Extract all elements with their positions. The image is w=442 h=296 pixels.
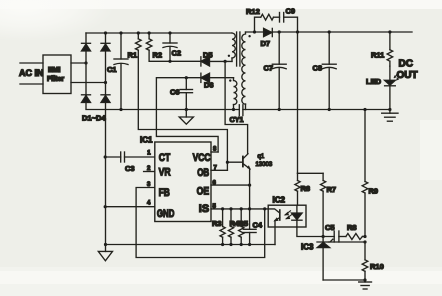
transistor Q1 13003 (243, 154, 273, 169)
node FB riser on IS rail (263, 207, 266, 210)
svg-text:D1~D4: D1~D4 (82, 114, 106, 123)
ground (primary main) (98, 251, 112, 260)
optocoupler IC2 box (268, 196, 306, 228)
wire AC input upper stub (20, 62, 43, 64)
optocoupler phototransistor (268, 209, 280, 221)
node ground column / sense rail (104, 243, 107, 246)
node bridge right column top (104, 31, 107, 34)
svg-text:CY1: CY1 (230, 115, 244, 124)
wire IC3 ref to divider (329, 241, 366, 243)
node GND on ground column (104, 205, 107, 208)
node EMI upper / bridge left (84, 61, 87, 64)
wire EMI output upper to left bridge column (71, 62, 86, 64)
ground (output earth) (382, 110, 398, 122)
transformer core (237, 32, 240, 66)
svg-text:AC IN: AC IN (19, 68, 44, 78)
svg-text:R10: R10 (370, 262, 384, 271)
node C2 top (168, 31, 171, 34)
ground (IC3 / divider earth) (359, 280, 372, 289)
capacitor C7 (264, 32, 287, 110)
wire C5 to R8 (339, 236, 346, 238)
capacitor C4 (243, 221, 263, 245)
svg-text:C6: C6 (170, 88, 180, 97)
node EMI lower / bridge right (104, 81, 107, 84)
node R3 bottom (221, 243, 224, 246)
wire R12 to C9 (274, 16, 280, 18)
wire top DC bus rail (86, 32, 232, 34)
svg-text:D6: D6 (204, 81, 214, 90)
svg-text:VCC: VCC (193, 152, 211, 164)
wire R12 riser (255, 17, 261, 32)
svg-text:C9: C9 (286, 7, 296, 16)
svg-text:GND: GND (157, 208, 175, 220)
svg-text:R8: R8 (347, 223, 357, 232)
wire opto emitter down to sense ground rail (274, 221, 276, 245)
node auxiliary phase dot (229, 79, 231, 81)
svg-text:IC1: IC1 (140, 136, 153, 145)
resistor R8 (346, 223, 363, 240)
capacitor C8 (313, 32, 337, 110)
node R5 top (240, 207, 243, 210)
wire IC3 anode to ground column (323, 279, 365, 281)
svg-text:CT: CT (159, 152, 171, 164)
node R4 bottom (229, 243, 232, 246)
svg-text:EMI: EMI (48, 67, 61, 74)
svg-text:D7: D7 (261, 39, 271, 48)
wire C9 to rail after D7 (284, 17, 298, 32)
node C6 tap (185, 76, 188, 79)
op-amp / controller IC1 box (140, 136, 211, 222)
svg-text:C8: C8 (313, 64, 323, 73)
svg-text:C5: C5 (325, 223, 335, 232)
capacitor C3 (105, 152, 134, 173)
svg-text:R6: R6 (301, 184, 311, 193)
node ref on divider (363, 240, 366, 243)
diode D4 (bridge lower-right) (101, 95, 110, 103)
svg-text:IC3: IC3 (301, 243, 314, 252)
node R4 top (229, 207, 232, 210)
svg-text:OE: OE (197, 185, 210, 197)
node R8 on divider (363, 235, 366, 238)
node base drive junction (226, 161, 229, 164)
capacitor C5 (325, 223, 339, 242)
node OE emitter junction (248, 184, 251, 187)
svg-text:OB: OB (197, 167, 209, 179)
node C7 top (278, 30, 281, 33)
resistor R10 (362, 242, 384, 280)
wire output bottom rail (243, 109, 390, 111)
wire pin5 IS rail to optocoupler (211, 208, 268, 210)
node C8 top (328, 30, 331, 33)
wire EMI output lower to right bridge column (71, 82, 106, 84)
resistor R11 (371, 32, 393, 66)
diode D6 (201, 73, 214, 89)
wire R8 to divider column (362, 236, 365, 238)
capacitor CY1 (230, 105, 244, 124)
svg-text:OUT: OUT (397, 70, 418, 81)
diode D3 (bridge lower-left) (82, 95, 91, 103)
diode D2 (bridge upper-right) (101, 43, 110, 51)
node auxiliary winding bottom (232, 108, 235, 111)
resistor R7 (321, 173, 337, 236)
wire Q1 emitter down through IS rail to C4 (249, 169, 251, 230)
node R3 top (221, 207, 224, 210)
node C6 bottom (185, 108, 188, 111)
node R9 top on rail (363, 108, 366, 111)
wire D5 anode to switch node (210, 60, 233, 62)
svg-text:LED: LED (366, 77, 382, 86)
wire pin2 VR stub (144, 171, 155, 173)
svg-text:C7: C7 (264, 64, 274, 73)
svg-text:DC: DC (399, 59, 413, 70)
node secondary phase dot (248, 35, 250, 37)
resistor R1 (128, 33, 142, 60)
node C2 bottom (168, 60, 171, 63)
transformer T1 auxiliary winding (234, 78, 237, 110)
svg-text:IC2: IC2 (273, 196, 286, 205)
wire sense top link R6 R7 (298, 172, 324, 174)
diode D7 (261, 28, 273, 48)
resistor R3 (212, 209, 225, 245)
node R12 riser on rail (253, 30, 256, 33)
node primary phase dot (228, 55, 230, 57)
diode D1 (bridge upper-left) (82, 43, 91, 51)
transformer T1 primary winding (232, 33, 235, 61)
svg-text:R5: R5 (239, 219, 249, 228)
capacitor C1 (107, 33, 128, 110)
capacitor C9 (280, 7, 296, 23)
svg-text:q1: q1 (258, 154, 265, 160)
wire primary-side bottom ground rail (86, 109, 239, 111)
capacitor C6 (170, 78, 193, 110)
svg-text:VR: VR (159, 167, 171, 179)
resistor R4 (228, 209, 240, 245)
wire sense ground rail (106, 244, 276, 246)
node R1 top (137, 31, 140, 34)
svg-text:Filter: Filter (47, 76, 64, 83)
node C3 left on ground column (104, 155, 107, 158)
wire pin3 FB lead down and right to opto (136, 188, 265, 258)
svg-text:R2: R2 (153, 51, 163, 60)
node R7 / IC3 cathode junction (322, 235, 325, 238)
svg-text:R12: R12 (246, 7, 260, 16)
node R10 bottom (363, 278, 366, 281)
wire primary ground column (105, 110, 107, 252)
svg-text:FB: FB (159, 187, 170, 199)
wire OB riser to base (227, 162, 242, 170)
wire R1 bottom to base node (138, 50, 227, 162)
capacitor C2 (163, 33, 181, 61)
wire pin1 CT lead (125, 156, 155, 158)
wire R2 bottom to D5 cathode (149, 50, 201, 61)
node snubber return on rail (296, 30, 299, 33)
transformer T1 secondary winding (242, 32, 246, 110)
shunt regulator IC3 (301, 237, 333, 281)
resistor R9 (362, 110, 378, 237)
svg-text:C2: C2 (172, 49, 182, 58)
node R11 top (388, 30, 391, 33)
wire D6 anode to auxiliary winding top (210, 77, 234, 79)
node C1 bottom (119, 108, 122, 111)
svg-text:D5: D5 (203, 51, 213, 60)
node R2 top (148, 31, 151, 34)
wire bridge left column (85, 33, 87, 109)
label DC OUT (397, 59, 418, 82)
svg-text:R9: R9 (369, 187, 379, 196)
wire AC input lower stub (20, 83, 43, 85)
node C4 bottom (248, 243, 251, 246)
wire voltage sense feed from +V rail (297, 32, 299, 173)
wire pin8 VCC stub (211, 151, 218, 153)
node switch node at D5 (224, 60, 227, 63)
EMI Filter box (43, 55, 71, 94)
wire switch node down and to Q1 collector (225, 61, 248, 153)
svg-text:R1: R1 (128, 51, 138, 60)
svg-text:13003: 13003 (256, 162, 273, 168)
wire D6 cathode to VCC (156, 78, 218, 152)
wire opto LED cathode to C5 line (297, 227, 334, 237)
resistor R5 (239, 209, 249, 245)
node C8 bottom (328, 108, 331, 111)
node R5 bottom (240, 243, 243, 246)
wire pin7 OB lead (211, 169, 227, 171)
svg-text:R11: R11 (371, 51, 384, 60)
ground (primary, below C6) (179, 110, 193, 125)
wire bridge right column (105, 33, 107, 109)
wire secondary output top rail (246, 31, 413, 33)
svg-text:C3: C3 (125, 164, 135, 173)
node C7 bottom (278, 108, 281, 111)
svg-text:R3: R3 (212, 219, 222, 228)
resistor R6 (295, 173, 310, 205)
node C1 top (119, 31, 122, 34)
svg-text:R7: R7 (327, 185, 337, 194)
wire pin6 OE lead to emitter (211, 184, 250, 186)
diode D5 (201, 51, 213, 67)
node LED bottom on rail (388, 108, 391, 111)
svg-text:C1: C1 (107, 65, 117, 74)
node emitter on IS rail (248, 207, 251, 210)
wire pin4 GND lead (105, 206, 155, 208)
resistor R12 (246, 7, 274, 20)
opto light arrows (285, 211, 292, 219)
svg-text:IS: IS (199, 203, 209, 215)
optocoupler LED (292, 205, 303, 227)
LED indicator (366, 66, 399, 109)
svg-text:C4: C4 (253, 221, 263, 230)
resistor R2 (146, 33, 162, 60)
